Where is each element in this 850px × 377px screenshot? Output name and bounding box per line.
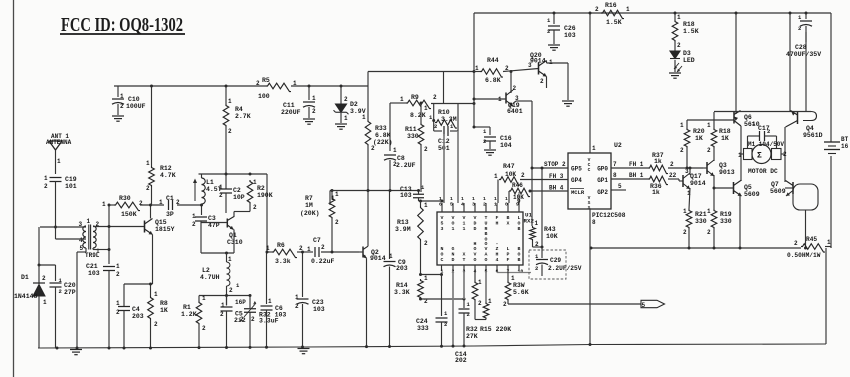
svg-text:5609: 5609 [744,191,760,198]
svg-text:1: 1 [307,246,311,253]
svg-text:-: - [496,242,499,247]
capacitor C10 100UF [117,86,119,97]
svg-text:Σ: Σ [757,152,762,161]
capacitor C2 10P [220,188,232,190]
svg-text:R13: R13 [397,219,409,226]
svg-text:U: U [485,220,488,226]
svg-text:TR9L: TR9L [85,252,100,259]
svg-text:C29: C29 [550,257,561,264]
capacitor C4 203 [118,306,130,308]
wire BH drop to C29 [541,168,543,247]
capacitor C17 104/50V [747,136,749,148]
svg-text:1: 1 [102,201,106,208]
svg-text:5: 5 [642,302,646,309]
resistor R32 27K [474,271,476,281]
resistor R9 8.2K [406,100,431,108]
svg-text:1: 1 [478,279,482,286]
svg-text:2: 2 [116,271,120,278]
svg-text:2: 2 [229,287,233,294]
wire mid net [330,190,419,192]
svg-text:3.3uF: 3.3uF [259,318,279,325]
svg-text:C26: C26 [564,25,576,32]
wire Q17 collector up [689,168,691,175]
svg-text:F: F [496,215,499,221]
wire R10 left branch [433,104,435,132]
transistor Q7 5609 [792,182,794,194]
svg-text:C21: C21 [86,263,98,270]
wire main vertical [473,13,475,127]
svg-text:27P: 27P [64,289,76,296]
svg-text:B: B [518,257,521,263]
svg-text:1: 1 [424,202,428,209]
wire Q4 to motor right [784,127,786,182]
svg-text:3.9M: 3.9M [395,226,411,233]
svg-text:203: 203 [132,313,144,320]
svg-text:C3: C3 [208,215,216,222]
capacitor C7 0.22uF [314,247,316,257]
svg-text:R30: R30 [119,195,131,202]
svg-text:1.2K: 1.2K [181,311,197,318]
svg-text:1: 1 [116,300,120,307]
wire BH net [530,190,568,192]
svg-text:1: 1 [87,218,91,225]
svg-text:2: 2 [513,85,517,92]
svg-text:103: 103 [564,32,576,39]
svg-text:O: O [441,252,444,258]
svg-text:1: 1 [344,115,348,122]
wire R9 branch [390,102,406,104]
wire Q2 collector to R33 [367,191,369,247]
wire top rail left section [114,85,266,87]
U1 pin 16 stub [441,203,443,212]
wire C12 net to supply rail [443,72,445,104]
svg-text:2: 2 [424,146,428,153]
svg-text:1: 1 [680,122,684,129]
svg-text:O: O [452,220,455,226]
svg-text:2: 2 [42,275,46,282]
resistor R20 1K [686,120,688,128]
svg-text:R2: R2 [257,185,265,192]
svg-text:V: V [474,252,477,258]
wire U2 VSS down [589,209,591,344]
svg-text:2: 2 [424,240,428,247]
resistor R18 1.5K LED [674,13,676,20]
svg-text:C19: C19 [65,176,77,183]
svg-text:2: 2 [312,108,316,115]
resistor R7 1M (20K) [331,191,333,198]
svg-text:P: P [507,252,510,258]
resistor R8 1K [148,296,154,320]
svg-text:4: 4 [79,237,83,244]
svg-text:C1: C1 [166,195,174,202]
svg-text:5609: 5609 [770,188,786,195]
svg-text:1: 1 [505,196,508,202]
svg-text:6.8K: 6.8K [375,132,391,139]
svg-text:GP1: GP1 [597,177,608,184]
resistor R30 150K [114,202,140,210]
svg-text:2: 2 [219,192,223,199]
svg-text:X: X [463,252,466,258]
transistor Q3 9013 [706,162,708,174]
svg-text:1: 1 [424,105,428,112]
wire TR pin3 row [40,226,86,228]
wire U1 pin3 net [463,271,465,299]
svg-text:1: 1 [228,256,232,263]
svg-text:9013: 9013 [719,169,735,176]
svg-text:D2: D2 [350,101,358,108]
svg-text:R3W: R3W [513,282,525,289]
wire motor left stub [741,153,744,155]
svg-text:10: 10 [518,269,524,275]
svg-text:LED: LED [683,57,695,64]
svg-text:2: 2 [44,183,48,190]
svg-text:2: 2 [202,325,206,332]
transistor Q2 9014 [362,247,364,258]
capacitor C29 2.2UF/25V dashed box [529,250,566,279]
wire GP1 to R36 [611,178,648,180]
svg-text:O: O [474,246,477,252]
wire detector node [39,264,56,266]
wire C13 to U1 pin16 [418,198,420,201]
U1 pin 6 stub [496,265,498,271]
capacitor C14 202 [463,299,465,308]
U1 pin 1 stub [441,265,443,271]
resistor R11 330 [420,103,422,123]
resistor R45 0.5OHM/1W [801,244,825,252]
svg-text:190K: 190K [257,192,273,199]
svg-text:220UF: 220UF [281,109,301,116]
wire Q7 down to rail [805,210,807,248]
svg-text:C24: C24 [416,318,428,325]
svg-text:C28: C28 [795,44,807,51]
svg-text:2: 2 [146,185,150,192]
svg-text:2: 2 [253,204,257,211]
svg-text:BH 1: BH 1 [629,172,644,179]
svg-text:H: H [496,252,499,258]
svg-text:1: 1 [266,245,270,252]
svg-text:1: 1 [707,208,711,215]
svg-text:BH 4: BH 4 [549,185,564,192]
svg-text:R6: R6 [277,242,285,249]
svg-text:H: H [496,220,499,226]
svg-text:1815Y: 1815Y [155,226,175,233]
svg-text:1K: 1K [160,307,168,314]
svg-text:2: 2 [483,202,486,208]
svg-text:1: 1 [738,152,742,159]
svg-text:R11: R11 [405,126,417,133]
svg-text:1: 1 [219,184,223,191]
svg-text:203: 203 [396,265,408,272]
svg-text:2.2UF/25V: 2.2UF/25V [548,265,582,272]
trimmer capacitor 16P [249,296,251,309]
capacitor C12 501 [434,130,442,132]
wire gray verticals to U1 [443,134,445,203]
wire STOP net [532,167,568,169]
svg-text:6.8K: 6.8K [485,77,501,84]
wire TR pin4 from antenna [56,238,87,240]
wire Q17 emitter to R21 [689,188,690,209]
svg-text:R18: R18 [683,21,695,28]
svg-text:R4: R4 [235,106,243,113]
LED D3 [674,42,676,51]
wire to connector [507,301,509,304]
wire TR pin1 to C21 line [92,248,94,250]
capacitor C21 [103,266,115,268]
svg-text:STOP 2: STOP 2 [544,161,566,168]
svg-text:1: 1 [312,95,316,102]
svg-text:2: 2 [677,42,681,49]
wire motor ground rail [591,247,801,249]
svg-text:N: N [452,252,455,258]
svg-text:2: 2 [176,199,180,206]
svg-text:1: 1 [626,6,630,13]
svg-text:1: 1 [511,275,515,282]
svg-text:5: 5 [450,202,453,208]
wire motor right stub [781,153,785,155]
svg-text:2: 2 [767,128,770,135]
svg-text:1: 1 [463,226,466,232]
ground symbol center [298,348,310,350]
svg-text:R10: R10 [438,109,450,116]
wire R14 bottom net [421,298,465,300]
svg-text:1K: 1K [695,135,703,142]
svg-text:1: 1 [295,294,299,301]
wire R10 right branch [457,104,459,132]
svg-text:D1: D1 [21,274,29,281]
capacitor C3 47P [195,216,207,218]
wire rail drop to Q4 [789,13,791,112]
capacitor C11 220UF [308,86,310,100]
svg-text:R32: R32 [466,326,478,333]
svg-text:1: 1 [472,196,475,202]
transistor Q5 5609 [733,182,735,194]
svg-text:Q5: Q5 [744,184,752,191]
svg-text:V: V [474,215,477,221]
svg-text:0.22uF: 0.22uF [311,258,335,265]
svg-text:2: 2 [535,265,538,272]
ground symbol left [70,349,82,351]
wire Q20 collector to ground [546,61,548,64]
svg-text:N: N [441,246,444,252]
svg-text:FH 1: FH 1 [629,161,644,168]
svg-text:330: 330 [695,218,707,225]
svg-text:1: 1 [494,202,497,208]
emitter bus stadium bottom [793,184,818,210]
svg-text:R9: R9 [411,94,419,101]
wire TR secondary to Q15 base [93,226,144,228]
svg-text:V: V [463,215,466,221]
svg-text:C10: C10 [128,96,140,103]
resistor R38 5.6K [507,271,509,281]
svg-text:4: 4 [496,257,499,263]
svg-text:L: L [507,246,510,252]
svg-text:2: 2 [220,311,224,318]
capacitor C5 [226,296,228,306]
svg-text:R21: R21 [695,211,707,218]
resistor R19 330 [711,209,717,229]
svg-text:R7: R7 [305,195,313,202]
wire Q19 collector [510,72,512,94]
wire rail drop to Q6 [735,13,737,114]
svg-text:1: 1 [400,96,404,103]
capacitor C6 / R32 [266,252,268,304]
resistor R44 6.8K [474,71,480,73]
capacitor C9 203 [384,261,396,263]
capacitor C23 103 [302,252,304,297]
svg-text:R45: R45 [806,236,817,243]
svg-text:2: 2 [467,311,470,318]
svg-text:6401: 6401 [507,108,523,115]
resistor R14 3.3K [418,279,424,299]
wire rail step up [367,72,369,87]
wire Q3 collector to R18b [713,148,715,161]
svg-text:1: 1 [120,93,124,100]
svg-text:1: 1 [461,196,464,202]
svg-text:D: D [452,257,455,263]
wire U2 VCC [589,13,591,153]
svg-text:1M: 1M [305,202,313,209]
svg-text:R1: R1 [183,304,191,311]
resistor R15 220K [485,271,487,302]
svg-text:U2: U2 [614,142,622,149]
U1 pin 10 stub [507,203,509,212]
svg-text:T: T [463,257,466,263]
capacitor C19 [50,177,62,179]
svg-text:Q1: Q1 [229,232,237,239]
svg-text:5.6K: 5.6K [513,289,529,296]
svg-text:4.7UH: 4.7UH [200,274,220,281]
resistor R6 3.3K [272,249,297,257]
svg-text:3: 3 [472,202,475,208]
svg-text:101: 101 [65,183,77,190]
svg-text:B: B [518,226,521,232]
svg-text:9561D: 9561D [803,132,823,139]
svg-text:R20: R20 [693,128,705,135]
wire bottom ground rail [38,344,826,348]
svg-text:C8: C8 [397,155,405,162]
svg-text:1: 1 [228,98,232,105]
svg-text:A: A [485,252,488,258]
svg-text:O: O [518,252,521,258]
wire Q1 emitter node [201,252,234,254]
svg-text:1: 1 [221,302,225,309]
svg-text:2: 2 [503,301,507,308]
transistor Q17 9014 [682,175,684,187]
svg-text:O: O [485,241,488,247]
svg-text:R8: R8 [160,300,168,307]
U1 pin 7 stub [507,265,509,271]
U1 pin 2 stub [452,265,454,271]
svg-text:330: 330 [720,218,732,225]
wire FH net [520,179,568,181]
svg-text:5: 5 [80,245,84,252]
capacitor C20 [55,265,57,281]
svg-text:2: 2 [434,123,437,130]
svg-text:150K: 150K [121,211,137,218]
resistor R18b 1K [713,112,715,128]
wire U1 pin2 to ground rail [452,271,454,346]
svg-text:Q3: Q3 [719,162,727,169]
svg-text:D3: D3 [683,50,691,57]
battery BT1 [824,141,840,143]
svg-text:1: 1 [202,295,206,302]
svg-text:R18: R18 [719,128,731,135]
svg-text:B: B [485,231,488,237]
svg-text:2: 2 [335,219,339,226]
svg-text:MOTOR DC: MOTOR DC [748,168,778,175]
svg-text:1: 1 [677,14,681,21]
svg-text:L1: L1 [206,179,214,186]
svg-text:1: 1 [450,196,453,202]
svg-text:1: 1 [475,65,479,72]
svg-text:C23: C23 [312,299,324,306]
U1 pin 15 stub [452,203,454,212]
svg-text:ANTENNA: ANTENNA [46,139,72,146]
resistor R13 3.9M [420,201,422,206]
svg-text:2: 2 [120,103,124,110]
wire Q5 emitter down [739,196,741,249]
svg-text:8.2K: 8.2K [410,112,426,119]
resistor R43 10K [530,226,536,241]
capacitor C26 103 [553,13,555,24]
svg-text:1: 1 [393,147,397,154]
svg-text:1: 1 [154,291,158,298]
resistor R47 10K [499,177,520,185]
svg-text:L: L [518,215,521,221]
antenna ANT1 [49,141,62,150]
svg-text:1: 1 [57,158,61,165]
svg-text:10P: 10P [233,194,245,201]
svg-text:O: O [518,220,521,226]
capacitor C16 104 [474,126,490,128]
svg-text:X: X [507,220,510,226]
svg-text:BT: BT [841,136,849,143]
transistor Q4 9561D [797,112,799,124]
svg-text:1: 1 [683,208,687,215]
svg-text:R5: R5 [262,77,270,84]
resistor R2 190K [247,180,253,204]
svg-text:2: 2 [251,316,255,323]
svg-text:GP0: GP0 [597,166,608,173]
svg-text:1k: 1k [652,189,660,196]
svg-text:Q4: Q4 [806,125,814,132]
svg-text:R47: R47 [503,163,515,170]
wire U1 pin1 net [421,274,442,276]
svg-text:1: 1 [483,196,486,202]
wire L2 bottom net [199,295,250,297]
svg-text:R46: R46 [512,182,523,189]
svg-text:2: 2 [192,221,196,228]
wire FH to Q3 base [668,167,703,169]
svg-text:1: 1 [441,269,444,275]
svg-text:FCC ID: OQ8-1302: FCC ID: OQ8-1302 [61,15,183,36]
svg-text:5: 5 [441,220,444,226]
resistor R12 4.7K [151,86,153,166]
U1 pin 4 stub [474,265,476,271]
svg-text:5: 5 [618,183,622,190]
svg-text:2: 2 [59,288,62,295]
svg-text:2: 2 [116,309,120,316]
svg-text:27K: 27K [466,333,478,340]
svg-text:2: 2 [344,96,348,103]
wire Q6 emitter to motor left [740,126,742,181]
svg-text:1: 1 [192,213,196,220]
svg-text:7: 7 [613,161,617,168]
resistor R36 1K [648,176,668,184]
U1 pin 3 stub [463,265,465,271]
U1 pin 13 stub [474,203,476,212]
svg-text:2: 2 [707,147,711,154]
